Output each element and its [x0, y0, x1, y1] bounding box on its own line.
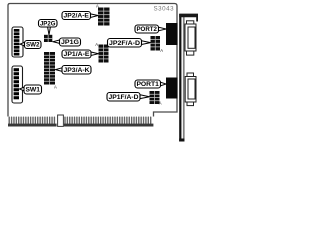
svg-text:PORT1: PORT1 — [136, 81, 159, 88]
svg-text:JP2/A-E: JP2/A-E — [63, 13, 89, 20]
svg-text:JP3/A-K: JP3/A-K — [64, 67, 90, 74]
svg-text:JP1F/A-D: JP1F/A-D — [109, 94, 139, 101]
svg-text:JP2G: JP2G — [40, 20, 56, 27]
svg-text:A: A — [54, 84, 57, 89]
svg-text:A: A — [95, 42, 98, 47]
svg-text:SW1: SW1 — [25, 87, 40, 94]
svg-text:A: A — [159, 101, 162, 106]
svg-text:A: A — [160, 48, 163, 53]
svg-text:SW2: SW2 — [26, 42, 40, 49]
svg-text:JP1/A-E: JP1/A-E — [64, 51, 90, 58]
svg-text:JP1G: JP1G — [61, 39, 79, 46]
svg-text:S3043: S3043 — [154, 5, 175, 12]
svg-text:A: A — [96, 3, 99, 8]
svg-text:PORT2: PORT2 — [136, 26, 157, 33]
svg-text:JP2F/A-D: JP2F/A-D — [109, 40, 140, 47]
